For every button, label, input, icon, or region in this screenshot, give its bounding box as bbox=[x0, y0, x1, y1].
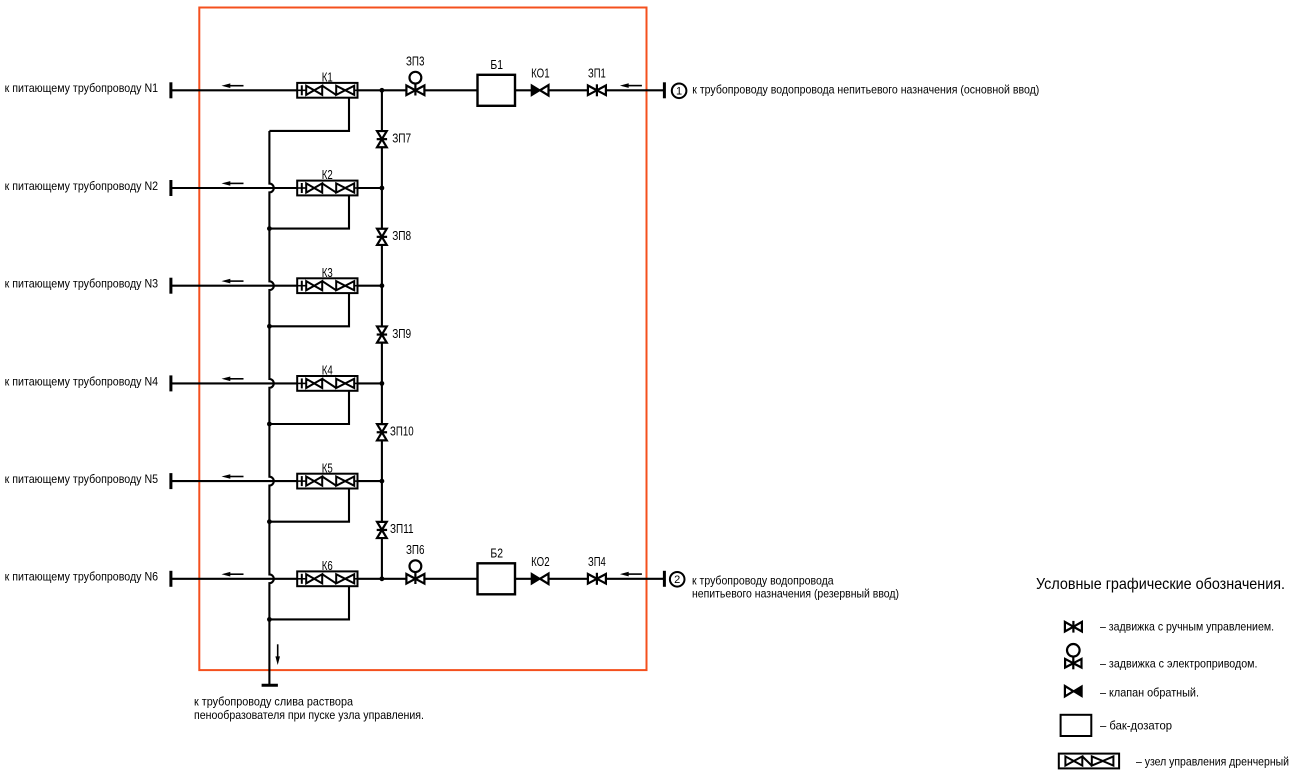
label: к питающему трубопроводу N1 bbox=[5, 81, 159, 95]
svg-text:– бак-дозатор: – бак-дозатор bbox=[1100, 718, 1172, 732]
svg-text:к трубопроводу водопровода неп: к трубопроводу водопровода непитьевого н… bbox=[692, 83, 1039, 97]
label: к питающему трубопроводу N6 bbox=[5, 570, 159, 584]
node: junction drain bus row 3 bbox=[267, 324, 272, 329]
drencher control unit К5 bbox=[297, 474, 357, 489]
wire: drain drop from К6 bbox=[269, 586, 349, 619]
svg-text:– узел управления дренчерный: – узел управления дренчерный bbox=[1136, 754, 1289, 768]
pipe end tick row 5 bbox=[169, 473, 172, 489]
wire: К6 to collector bus bbox=[358, 578, 382, 580]
node: junction on ЗП bus row 4 bbox=[380, 381, 385, 386]
flow arrow row 4 bbox=[222, 377, 244, 382]
wire: drain drop from К3 bbox=[269, 293, 349, 326]
drencher control unit К3 bbox=[297, 278, 357, 293]
label КО1 bbox=[531, 66, 550, 81]
svg-text:Условные графические обозначен: Условные графические обозначения. bbox=[1036, 576, 1285, 593]
wire: row segments to inlet (row of Б1) bbox=[382, 89, 665, 91]
legend label: бак-дозатор bbox=[1100, 718, 1172, 732]
legend label: клапан обратный bbox=[1100, 686, 1199, 700]
svg-text:– задвижка с электроприводом.: – задвижка с электроприводом. bbox=[1100, 657, 1258, 671]
svg-text:к питающему трубопроводу N2: к питающему трубопроводу N2 bbox=[5, 179, 159, 193]
wire: feed pipe row 2 (left segment) bbox=[171, 187, 297, 189]
legend label: узел управления дренчерный bbox=[1136, 754, 1289, 768]
drencher control unit К2 bbox=[297, 181, 357, 196]
svg-text:К4: К4 bbox=[322, 363, 333, 378]
svg-text:к питающему трубопроводу N5: к питающему трубопроводу N5 bbox=[5, 472, 159, 486]
svg-text:ЗП4: ЗП4 bbox=[588, 554, 606, 569]
dosing tank Б1 bbox=[478, 75, 516, 106]
label Б2 bbox=[490, 546, 503, 561]
svg-text:ЗП3: ЗП3 bbox=[406, 54, 425, 69]
wire: drain collector bus (vertical, with crossover hops) bbox=[269, 131, 273, 685]
label: к питающему трубопроводу N5 bbox=[5, 472, 159, 486]
gate valve ЗП4 bbox=[588, 573, 606, 585]
legend label: задвижка с ручным управлением bbox=[1100, 620, 1274, 634]
svg-text:ЗП10: ЗП10 bbox=[390, 423, 414, 438]
svg-text:к питающему трубопроводу N6: к питающему трубопроводу N6 bbox=[5, 570, 159, 584]
svg-text:ЗП9: ЗП9 bbox=[392, 326, 411, 341]
drain pipe end bar bbox=[262, 684, 278, 687]
gate valve ЗП11 bbox=[377, 522, 387, 538]
svg-text:К2: К2 bbox=[322, 167, 333, 182]
wire: ЗП riser bus segments bbox=[381, 90, 383, 579]
pipe end tick row 4 bbox=[169, 375, 172, 391]
label ЗП8 bbox=[392, 228, 411, 243]
label К2 bbox=[322, 167, 333, 182]
drencher control unit К6 bbox=[297, 571, 357, 586]
electric gate valve ЗП6 bbox=[406, 560, 424, 584]
wire: feed pipe row 5 (left segment) bbox=[171, 480, 297, 482]
svg-text:К6: К6 bbox=[322, 558, 333, 573]
wire: drain drop from К1 bbox=[269, 98, 349, 131]
legend symbol: бак-дозатор bbox=[1061, 715, 1092, 736]
svg-text:к питающему трубопроводу N1: к питающему трубопроводу N1 bbox=[5, 81, 159, 95]
svg-text:к питающему трубопроводу N4: к питающему трубопроводу N4 bbox=[5, 374, 159, 388]
svg-text:ЗП7: ЗП7 bbox=[392, 130, 411, 145]
node: junction on ЗП bus row 2 bbox=[380, 186, 385, 191]
label ЗП10 bbox=[390, 423, 414, 438]
node: junction on ЗП bus row 6 bbox=[380, 576, 385, 581]
svg-text:ЗП6: ЗП6 bbox=[406, 542, 425, 557]
svg-text:КО1: КО1 bbox=[531, 66, 550, 81]
svg-text:к трубопроводу слива раствора: к трубопроводу слива раствора bbox=[194, 694, 353, 708]
pipe end tick row 3 bbox=[169, 278, 172, 294]
svg-text:Б2: Б2 bbox=[490, 546, 503, 561]
node: junction on ЗП bus row 5 bbox=[380, 479, 385, 484]
wire: row segments to inlet (row of Б2) bbox=[382, 578, 665, 580]
label КО2 bbox=[531, 554, 550, 569]
wire: К1 to collector bus bbox=[358, 89, 382, 91]
wire: К3 to collector bus bbox=[358, 285, 382, 287]
node: junction drain bus row 6 bbox=[267, 617, 272, 622]
label ЗП6 bbox=[406, 542, 425, 557]
gate valve ЗП10 bbox=[377, 424, 387, 440]
node: junction on ЗП bus row 3 bbox=[380, 283, 385, 288]
svg-text:КО2: КО2 bbox=[531, 554, 550, 569]
label ЗП4 bbox=[588, 554, 606, 569]
svg-text:ЗП11: ЗП11 bbox=[390, 521, 414, 536]
label: к трубопроводу водопровода (резервный ввод), 2 lines bbox=[692, 573, 899, 600]
check valve КО1 bbox=[532, 85, 549, 95]
node 1 balloon bbox=[672, 84, 687, 99]
svg-text:– клапан обратный.: – клапан обратный. bbox=[1100, 686, 1199, 700]
svg-text:Б1: Б1 bbox=[490, 57, 503, 72]
inlet pipe end tick 1 bbox=[663, 82, 666, 98]
svg-text:К3: К3 bbox=[322, 265, 333, 280]
wire: К2 to collector bus bbox=[358, 187, 382, 189]
label ЗП1 bbox=[588, 66, 606, 81]
label ЗП11 bbox=[390, 521, 414, 536]
node: junction drain bus row 4 bbox=[267, 422, 272, 427]
label: пенообразователя при пуске узла управления. bbox=[194, 708, 424, 722]
label К1 bbox=[322, 70, 333, 85]
label: к трубопроводу слива раствора bbox=[194, 694, 353, 708]
wire: feed pipe row 4 (left segment) bbox=[171, 382, 297, 384]
svg-text:– задвижка с ручным управление: – задвижка с ручным управлением. bbox=[1100, 620, 1274, 634]
label Б1 bbox=[490, 57, 503, 72]
inlet pipe end tick 2 bbox=[663, 571, 666, 587]
svg-text:ЗП1: ЗП1 bbox=[588, 66, 606, 81]
drencher control unit К1 bbox=[297, 83, 357, 98]
wire: drain drop from К2 bbox=[269, 195, 349, 228]
flow arrow row 1 bbox=[222, 83, 244, 88]
gate valve ЗП9 bbox=[377, 326, 387, 342]
node 2 balloon bbox=[670, 572, 685, 587]
wire: feed pipe row 6 (left segment) bbox=[171, 578, 297, 580]
flow arrow at inlet row 1 bbox=[620, 83, 642, 88]
svg-text:к трубопроводу водопровода: к трубопроводу водопровода bbox=[692, 573, 834, 587]
wire: К5 to collector bus bbox=[358, 480, 382, 482]
label: к трубопроводу водопровода непитьевого назначения (основной ввод) bbox=[692, 83, 1039, 97]
legend title: Условные графические обозначения. bbox=[1036, 576, 1285, 593]
label: к питающему трубопроводу N4 bbox=[5, 374, 159, 388]
pipe end tick row 1 bbox=[169, 82, 172, 98]
node: junction on ЗП bus row 1 bbox=[380, 88, 385, 93]
wire: К4 to collector bus bbox=[358, 382, 382, 384]
flow arrow row 6 bbox=[222, 572, 244, 577]
node: junction drain bus row 2 bbox=[267, 226, 272, 231]
drencher control unit К4 bbox=[297, 376, 357, 391]
legend symbol: задвижка с электроприводом bbox=[1065, 644, 1081, 669]
svg-text:2: 2 bbox=[674, 574, 680, 586]
wire: feed pipe row 3 (left segment) bbox=[171, 285, 297, 287]
svg-text:1: 1 bbox=[676, 86, 682, 98]
flow arrow row 2 bbox=[222, 181, 244, 186]
svg-text:к питающему трубопроводу N3: к питающему трубопроводу N3 bbox=[5, 277, 159, 291]
label К6 bbox=[322, 558, 333, 573]
dosing tank Б2 bbox=[478, 563, 516, 594]
svg-text:ЗП8: ЗП8 bbox=[392, 228, 411, 243]
wire: feed pipe row 1 (left segment) bbox=[171, 89, 297, 91]
gate valve ЗП1 bbox=[588, 84, 606, 96]
svg-text:непитьевого назначения (резерв: непитьевого назначения (резервный ввод) bbox=[692, 587, 899, 601]
gate valve ЗП7 bbox=[377, 131, 387, 147]
node: junction drain bus row 5 bbox=[267, 519, 272, 524]
legend symbol: клапан обратный bbox=[1065, 686, 1082, 696]
label К4 bbox=[322, 363, 333, 378]
frame: orange boundary of control unit bbox=[199, 8, 646, 671]
flow arrow row 3 bbox=[222, 279, 244, 284]
label К3 bbox=[322, 265, 333, 280]
flow arrow row 5 bbox=[222, 474, 244, 479]
electric gate valve ЗП3 bbox=[406, 72, 424, 96]
gate valve ЗП8 bbox=[377, 229, 387, 245]
svg-text:пенообразователя при пуске узл: пенообразователя при пуске узла управлен… bbox=[194, 708, 424, 722]
legend symbol: узел управления дренчерный bbox=[1059, 754, 1119, 769]
svg-text:К5: К5 bbox=[322, 460, 333, 475]
label: к питающему трубопроводу N2 bbox=[5, 179, 159, 193]
svg-text:К1: К1 bbox=[322, 70, 333, 85]
wire: drain drop from К5 bbox=[269, 489, 349, 522]
label ЗП7 bbox=[392, 130, 411, 145]
pipe end tick row 2 bbox=[169, 180, 172, 196]
label ЗП3 bbox=[406, 54, 425, 69]
label ЗП9 bbox=[392, 326, 411, 341]
pipe end tick row 6 bbox=[169, 571, 172, 587]
label К5 bbox=[322, 460, 333, 475]
legend label: задвижка с электроприводом bbox=[1100, 657, 1258, 671]
flow arrow at inlet row 2 bbox=[620, 572, 642, 577]
legend symbol: задвижка с ручным управлением bbox=[1065, 621, 1082, 633]
label: к питающему трубопроводу N3 bbox=[5, 277, 159, 291]
wire: drain drop from К4 bbox=[269, 391, 349, 424]
check valve КО2 bbox=[532, 574, 549, 584]
flow arrow down to drain bbox=[275, 644, 280, 665]
